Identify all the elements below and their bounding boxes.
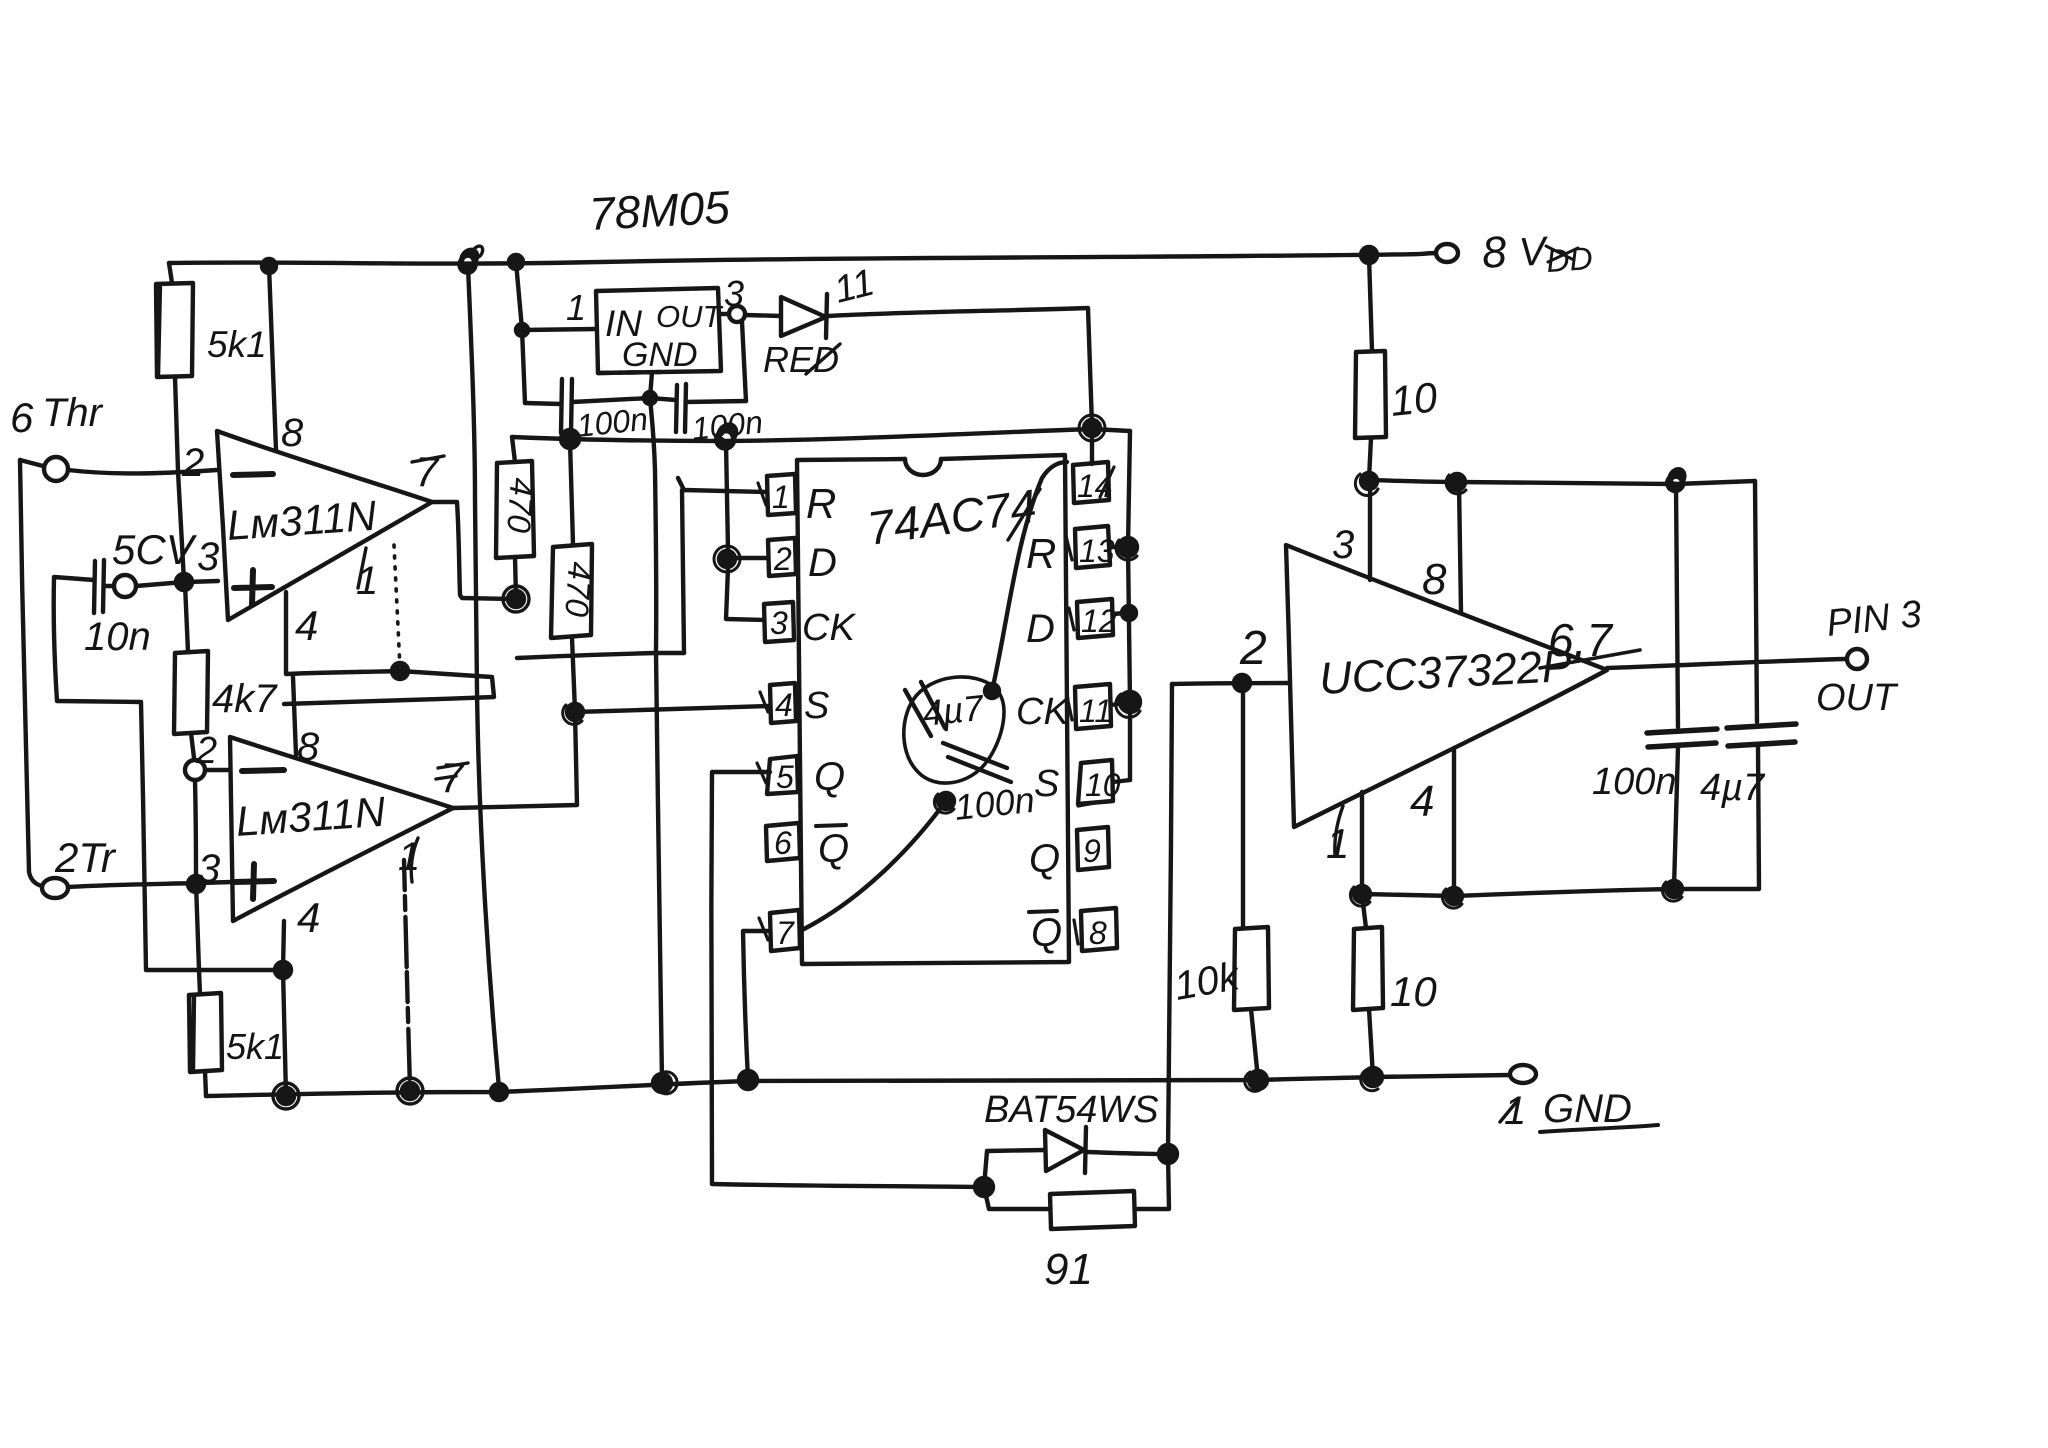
wire right riser 13-12-11-10 (1128, 431, 1130, 780)
node junction 10ohm drop on VDD rail (1361, 247, 1377, 263)
wire ucc pin1 drop (1360, 792, 1364, 893)
pin box 13 (1075, 526, 1110, 568)
pin box 11 (1075, 684, 1111, 729)
wire VDD rail left corner into 5k1 (169, 263, 172, 283)
wire 470 bottom to output node (515, 557, 516, 598)
svg-text:CK: CK (1016, 691, 1070, 733)
svg-text:BAT54WS: BAT54WS (984, 1089, 1159, 1131)
pin box 8 (1081, 908, 1117, 951)
svg-text:13: 13 (1079, 533, 1115, 569)
svg-text:2: 2 (1239, 622, 1267, 675)
svg-text:5k1: 5k1 (226, 1026, 284, 1067)
svg-text:PIN 3: PIN 3 (1825, 593, 1924, 645)
capacitor C5 4u7 out plates (1727, 724, 1796, 746)
svg-text:UCC37322P: UCC37322P (1318, 640, 1573, 704)
node junction comp1 pin8 on VDD rail (262, 259, 276, 273)
svg-text:Lм311N: Lм311N (234, 788, 387, 845)
svg-text:5k1: 5k1 (207, 324, 267, 365)
wire R pin1 from riser (678, 478, 767, 653)
svg-text:4: 4 (295, 602, 318, 649)
wire 5k1 bottom to divider (175, 377, 184, 581)
wire 91 right to riser (1135, 1154, 1169, 1209)
svg-text:100n: 100n (953, 779, 1037, 828)
svg-text:2Tr: 2Tr (54, 834, 117, 881)
svg-text:4: 4 (775, 687, 793, 723)
svg-text:OUT: OUT (656, 299, 724, 334)
wire 470-2 bottom to S node (572, 638, 575, 711)
wire out bypass vertical 4u7 (1755, 481, 1757, 722)
svg-text:6: 6 (774, 825, 792, 861)
svg-text:7: 7 (415, 448, 440, 495)
wire comp2 output up to S node (453, 712, 577, 808)
diode D1 LED RED (781, 297, 826, 336)
vertical A VDD pulldown long wire (468, 266, 499, 1088)
svg-text:10n: 10n (84, 615, 151, 659)
regulator U2 78M05 box (596, 288, 721, 373)
wire out bypass vertical 100n (1676, 484, 1678, 727)
wire 5V rail left corner to 470 R3 (512, 437, 515, 462)
wire comp1 pin8 riser (269, 266, 276, 450)
wire 10 bottom to vdd2 node (1369, 438, 1371, 479)
svg-text:1: 1 (566, 287, 586, 328)
pin box 2 (768, 538, 796, 576)
pin box 6 (766, 823, 800, 861)
resistor R7 10k (1241, 685, 1245, 928)
node junction ucc pin4 gnd (1446, 888, 1462, 904)
svg-text:91: 91 (1044, 1245, 1093, 1294)
node junction D-CK riser on 5V rail (716, 424, 736, 448)
wire 5V rail (512, 429, 1130, 441)
resistor R1 5k1 top (156, 283, 193, 377)
svg-text:GND: GND (1543, 1087, 1632, 1131)
svg-text:S: S (1034, 763, 1059, 805)
node junction regulator IN drop (509, 255, 523, 269)
resistor R5 470 second (551, 544, 592, 638)
wire comp1 pin4 to gnd net (284, 592, 494, 704)
terminal VDD pin 8 (1436, 244, 1458, 262)
svg-text:4µ7: 4µ7 (921, 687, 988, 734)
wire D pin2 (730, 556, 768, 560)
pin box 1 (767, 474, 796, 515)
node junction reg GND (644, 392, 656, 404)
svg-text:4k7: 4k7 (212, 677, 278, 721)
svg-text:14: 14 (1077, 468, 1113, 504)
wire diode cathode to right riser (1087, 1152, 1164, 1154)
resistor R4 5k1 bottom (189, 993, 222, 1072)
node junction cap1/470 on 5V rail (561, 430, 579, 448)
wire GND rail (206, 1075, 1510, 1096)
pin box 9 (1077, 827, 1109, 870)
wire pin14 stub to rail junction (1090, 430, 1094, 464)
wire cap1 right to reg GND (572, 398, 650, 402)
pin box 4 (770, 683, 796, 723)
node junction output pulldown (508, 591, 524, 607)
wire ucc pin2 input (1172, 683, 1288, 684)
wire branch up to diode (984, 1150, 1045, 1187)
svg-text:2: 2 (773, 541, 792, 577)
wire comp1 pin1 dotted (394, 545, 400, 668)
wire CV node to comp1 plus (186, 581, 218, 582)
svg-text:10: 10 (1390, 968, 1437, 1015)
pin box 7 (770, 910, 800, 951)
node junction 4u7 top (985, 684, 999, 698)
wire pin2 riser down through gnd to diode node (1168, 684, 1172, 1154)
svg-text:11: 11 (830, 261, 878, 311)
pin box 12 (1077, 599, 1113, 638)
svg-text:9: 9 (1083, 833, 1101, 869)
svg-text:8: 8 (1480, 227, 1508, 278)
capacitor C7 100n diagonal plates (943, 743, 1011, 782)
wire comp1 output to pulldown node (432, 502, 512, 599)
wire regulator GND down to bottom rail (650, 372, 662, 1082)
node junction 100n gnd (1666, 881, 1682, 897)
wire pin12 to riser (1113, 613, 1125, 614)
svg-text:Lм311N: Lм311N (225, 492, 378, 549)
wire Tr to comp2 plus input (68, 882, 230, 887)
wire Q pin5 down to BAT54WS branch (711, 772, 984, 1187)
svg-text:Q: Q (818, 827, 849, 871)
node junction comp2 pin4 (275, 962, 291, 978)
svg-text:5CV: 5CV (112, 526, 198, 573)
svg-text:RED: RED (763, 339, 839, 380)
pin box 5 (767, 756, 798, 794)
svg-text:4: 4 (1410, 777, 1434, 826)
svg-text:Thr: Thr (42, 391, 104, 435)
svg-text:12: 12 (1081, 603, 1117, 639)
node junction ucc pin3 (1361, 473, 1377, 489)
capacitor C6 4u7 plates (905, 682, 945, 736)
wire VDD top rail (169, 253, 1438, 264)
svg-text:2: 2 (195, 730, 217, 772)
node junction scribble on VDD rail (459, 250, 477, 273)
svg-text:Q: Q (814, 755, 845, 799)
wire D CK riser (726, 443, 764, 620)
plus input comp1 (234, 570, 272, 605)
node junction Q branch (975, 1178, 993, 1196)
terminal GND pin 1 (1510, 1065, 1536, 1083)
wire 10n left plate to ground path (54, 577, 283, 970)
svg-text:3: 3 (770, 605, 788, 641)
svg-text:VDD: VDD (1518, 226, 1594, 281)
svg-text:10: 10 (1388, 373, 1440, 425)
wire pin11 to riser (1111, 703, 1124, 705)
wire comp2 pin1 dashed to gnd (404, 860, 410, 1088)
wire 100n bottom down (1674, 747, 1678, 888)
wire 4k7 bottom to comp2 minus terminal (191, 733, 194, 758)
svg-text:470: 470 (500, 477, 541, 535)
svg-text:5: 5 (776, 759, 794, 795)
wire LED cathode right and down to 5V rail (828, 308, 1092, 426)
op-amp U1 LM311N comparator 1 (217, 431, 432, 620)
svg-text:R: R (1026, 530, 1056, 577)
terminal Thr pin 6 (20, 460, 43, 466)
capacitor C6 4u7 circle (904, 677, 1004, 783)
wire 100n curve down to pin 7 (804, 801, 946, 929)
svg-text:1: 1 (772, 479, 790, 515)
node junction comp pin1 gnd on rail (402, 1083, 418, 1099)
wire regulator IN drop (516, 262, 525, 403)
svg-text:Q: Q (1031, 911, 1062, 955)
wire Thr to comp1 minus input (68, 470, 217, 473)
capacitor C3 10n plates (94, 560, 104, 613)
wire 10n right plate to CV node (105, 584, 114, 588)
node junction pulldown on rail (491, 1084, 507, 1100)
pin box 3 (764, 602, 794, 642)
node junction diode cathode (1159, 1145, 1177, 1163)
wire 4u7 curve up to pin 14 (992, 462, 1067, 691)
svg-text:7: 7 (776, 915, 795, 951)
terminal OUT pin3 (1847, 649, 1867, 669)
node junction ic gnd on rail (739, 1071, 757, 1089)
op-amp U3 LM311N comparator 2 (230, 737, 453, 921)
driver U5 UCC37322P body (1286, 545, 1607, 827)
svg-text:3: 3 (198, 847, 220, 891)
node junction pin12 (1122, 606, 1136, 620)
svg-text:10: 10 (1085, 767, 1121, 803)
wire 470-2 top to 5V rail (570, 441, 573, 544)
resistor R2 4k7 (174, 651, 208, 734)
wire comp2 pin8 riser (293, 677, 296, 755)
wire OUT to LED (745, 315, 781, 316)
svg-text:8: 8 (1422, 555, 1447, 604)
wire S pin4 from node (575, 706, 770, 712)
wire ucc pin8 drop (1459, 484, 1461, 612)
svg-text:R: R (806, 480, 836, 527)
wire ucc pin3 drop (1368, 482, 1372, 580)
node junction comp2 gnd on rail (278, 1088, 294, 1104)
svg-text:78M05: 78M05 (588, 181, 732, 240)
terminal Tr pin 2 (42, 878, 68, 898)
node junction pin13 (1119, 538, 1137, 556)
svg-text:3: 3 (1332, 523, 1354, 567)
node junction Tr wire crossing (188, 876, 204, 892)
node junction 10ohm2 on rail (1364, 1068, 1382, 1086)
svg-text:3: 3 (197, 535, 219, 579)
svg-text:OUT: OUT (1816, 677, 1899, 719)
wire pin10 to riser corner (1113, 780, 1130, 782)
capacitor C1 100n plates (561, 379, 572, 433)
svg-text:470: 470 (558, 561, 599, 619)
node junction ucc pin8 (1449, 474, 1465, 490)
resistor R8 10 bottom (1362, 895, 1366, 928)
node junction 100n bottom (938, 793, 954, 809)
wire divider down to 5k1 bottom (195, 781, 200, 994)
pin box 14 (1073, 462, 1109, 503)
svg-text:11: 11 (1079, 693, 1112, 729)
wire cap2 to OUT pin (742, 322, 746, 401)
pin box 10 (1078, 760, 1113, 804)
svg-text:2: 2 (181, 441, 204, 485)
resistor R3 470 (496, 461, 534, 558)
svg-text:8: 8 (1089, 915, 1107, 951)
wire 5k1 bottom to GND rail (205, 1071, 206, 1096)
resistor R9 91 (1050, 1191, 1135, 1229)
node junction CV divider (176, 574, 192, 590)
svg-text:100n: 100n (1592, 761, 1677, 803)
terminal regulator OUT (720, 312, 729, 316)
wire Thr down left edge to Tr (20, 460, 42, 886)
IC notch (905, 459, 941, 475)
svg-text:6: 6 (10, 394, 34, 441)
wire ucc ground bus (1362, 889, 1759, 896)
wire gnd link to R pin riser (517, 653, 684, 658)
svg-text:D: D (1026, 607, 1055, 651)
node junction 10k tap (1234, 675, 1250, 691)
minus input comp1 (233, 474, 273, 475)
svg-text:GND: GND (622, 336, 698, 374)
node junction ucc pin1 gnd (1354, 886, 1370, 902)
node junction out caps scribble (1667, 469, 1684, 491)
wire comp2 pin4 down (283, 921, 286, 1096)
node junction LED drop on 5V rail (1084, 420, 1100, 436)
svg-text:D: D (808, 541, 837, 585)
node junction pin11 (1120, 692, 1140, 712)
svg-text:74AC74: 74AC74 (864, 479, 1040, 555)
wire ucc output (1607, 659, 1845, 668)
wire 4u7 bottom down (1758, 746, 1759, 888)
node junction S (567, 704, 583, 720)
wire pin13 to riser (1110, 545, 1124, 549)
IC U4 74AC74 body (797, 455, 1069, 964)
capacitor C4 100n out plates (1647, 729, 1717, 747)
node junction 10k on rail (1249, 1071, 1267, 1089)
svg-text:S: S (804, 685, 829, 727)
wire CV node to 4k7 (185, 584, 188, 652)
pen squiggle above rail (472, 246, 483, 257)
svg-text:4: 4 (297, 894, 320, 941)
node junction comp1 pin4 gnd (392, 663, 408, 679)
wire branch down to resistor 91 (984, 1187, 1050, 1209)
terminal comp2 minus input (185, 760, 205, 780)
svg-text:CK: CK (802, 607, 856, 649)
node junction reg gnd on rail (653, 1074, 671, 1092)
node junction D riser (719, 551, 735, 567)
diode D2 BAT54WS (1045, 1130, 1084, 1171)
wire 10-2 bottom to gnd (1369, 1009, 1373, 1076)
resistor R6 10 top (1369, 256, 1372, 351)
svg-text:8: 8 (297, 725, 320, 769)
wire 10k bottom to gnd (1251, 1009, 1258, 1079)
svg-text:Q: Q (1029, 837, 1060, 881)
wire ucc pin4 drop (1452, 748, 1456, 895)
plus input comp2 (234, 864, 274, 899)
svg-text:8: 8 (281, 411, 304, 455)
capacitor C2 100n plates (676, 384, 686, 432)
minus input comp2 (242, 770, 284, 771)
wire pin7 down to gnd (743, 931, 770, 1079)
wire UCC vdd rail (1369, 480, 1755, 484)
